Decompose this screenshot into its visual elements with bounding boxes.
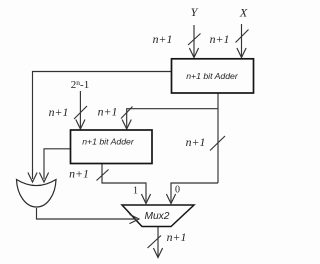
bus slash right bus n+1 <box>210 136 225 151</box>
svg-text:n+1: n+1 <box>167 230 187 244</box>
wire U1 left output to OR gate left input <box>33 72 172 180</box>
mux U3 trapezoid <box>122 205 194 227</box>
svg-text:1: 1 <box>133 186 138 197</box>
wire right bus to Mux2 input 0 <box>171 183 218 202</box>
arrowhead into U2 right input <box>122 120 131 130</box>
bus slash 2^n-1 n+1 <box>74 106 87 119</box>
wire U1 bottom output vertical bus <box>217 93 219 183</box>
bus slash X n+1 <box>236 30 249 43</box>
svg-text:2n-1: 2n-1 <box>71 78 89 91</box>
wire Y input <box>193 25 195 57</box>
svg-text:n+1: n+1 <box>98 105 118 119</box>
adder U2 box <box>71 130 153 164</box>
svg-text:X: X <box>239 6 248 20</box>
or-gate G1 <box>17 180 57 208</box>
svg-text:0: 0 <box>175 185 180 196</box>
wire X input <box>241 24 243 57</box>
svg-text:n+1: n+1 <box>49 105 69 119</box>
arrowhead Y into U1 <box>189 48 198 58</box>
arrowhead Mux2 output <box>153 248 162 258</box>
arrowhead into Mux2 input 1 <box>141 194 150 204</box>
wire U2 bottom output to Mux2 input 1 <box>102 164 146 202</box>
arrowhead 2^n-1 into U2 <box>76 120 85 130</box>
arrowhead into Mux2 input 0 <box>166 194 175 204</box>
wire Mux2 output <box>157 227 159 257</box>
arrowhead into Mux2 select <box>130 214 140 223</box>
svg-text:n+1 bit Adder: n+1 bit Adder <box>82 137 135 147</box>
arrowhead into OR gate right <box>39 173 48 183</box>
wire U2 left output to OR gate right input <box>44 149 71 179</box>
wire constant 2^n-1 into U2 <box>79 91 81 128</box>
wire branch to U2 right input <box>127 109 218 128</box>
bus slash Mux2 output n+1 <box>148 236 162 249</box>
adder U1 box <box>172 59 254 93</box>
arrowhead X into U1 <box>237 48 246 58</box>
bus slash U2 output n+1 <box>97 170 109 181</box>
bus slash Y n+1 <box>188 34 201 46</box>
svg-text:n+1: n+1 <box>153 32 173 46</box>
svg-text:n+1: n+1 <box>69 167 89 181</box>
wire OR gate output to Mux2 select <box>37 208 137 219</box>
svg-text:Y: Y <box>191 5 199 19</box>
svg-text:n+1: n+1 <box>210 32 230 46</box>
svg-text:n+1: n+1 <box>186 135 206 149</box>
svg-text:n+1 bit Adder: n+1 bit Adder <box>186 71 239 81</box>
bus slash U2 right input n+1 <box>121 107 133 119</box>
arrowhead into OR gate left <box>28 173 37 183</box>
svg-text:Mux2: Mux2 <box>145 211 170 222</box>
